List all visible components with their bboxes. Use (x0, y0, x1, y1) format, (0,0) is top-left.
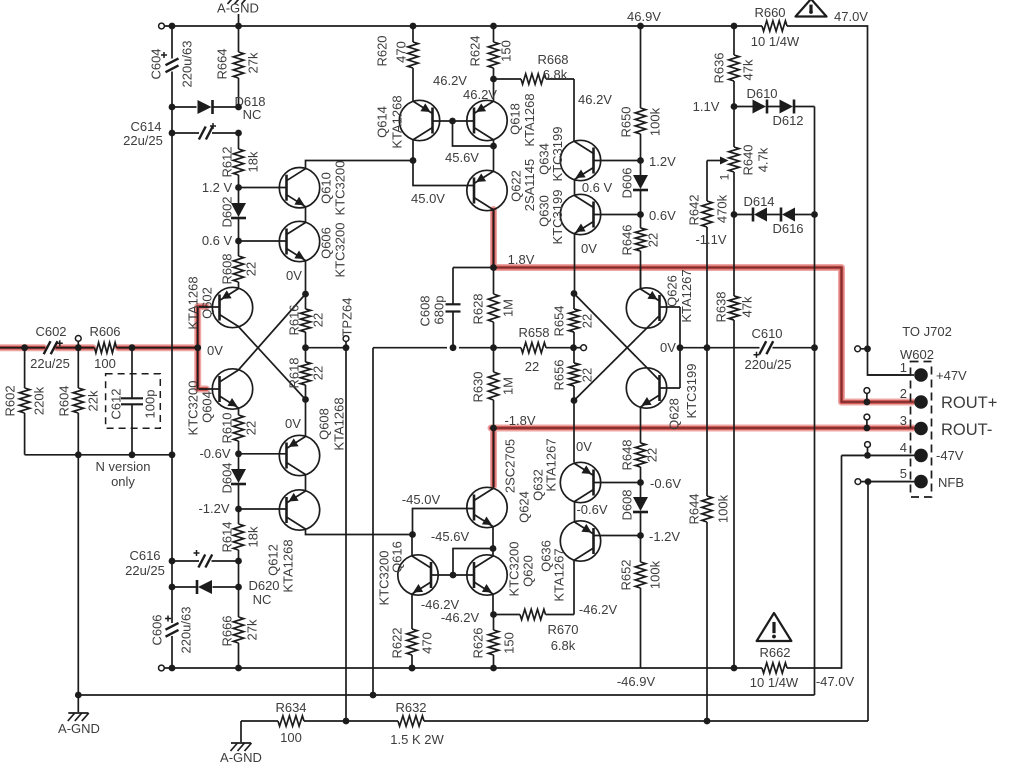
pot wiper R640 (707, 157, 729, 165)
junction C604-D618 (169, 104, 176, 111)
resistor R606 (95, 343, 117, 353)
svg-text:100k: 100k (648, 560, 663, 589)
svg-text:Q606: Q606 (319, 227, 334, 259)
wire mid horizontal net2 (459, 347, 521, 349)
junction R614-C616 (235, 558, 242, 565)
svg-text:D602: D602 (220, 196, 235, 227)
label R644 value (716, 494, 731, 523)
svg-text:46.9V: 46.9V (627, 9, 661, 24)
resistor R630 (488, 348, 498, 428)
svg-text:27k: 27k (246, 52, 261, 73)
svg-text:+47V: +47V (936, 368, 967, 383)
wire D610 row (734, 106, 815, 108)
junction R642 bottom (704, 344, 711, 351)
label 0.6 V left (202, 233, 233, 248)
wire D602 leads (238, 188, 240, 242)
svg-text:220u/25: 220u/25 (745, 357, 792, 372)
label 1.8V (508, 252, 535, 267)
svg-text:0.6 V: 0.6 V (582, 180, 613, 195)
wire bases to Q618 emitter node (453, 121, 494, 146)
label R662 value (750, 675, 799, 690)
svg-text:Q614: Q614 (375, 106, 390, 138)
svg-text:R656: R656 (552, 359, 567, 390)
wire input vertical (197, 307, 199, 389)
label Q618 KTA1268 (522, 93, 537, 146)
pin 2 W602 (914, 395, 928, 409)
svg-text:R664: R664 (215, 48, 230, 79)
wire NFB testpoint stub (861, 481, 868, 483)
svg-text:R622: R622 (390, 627, 405, 658)
svg-text:22: 22 (645, 448, 660, 462)
label pin 1 (900, 360, 907, 375)
svg-text:only: only (111, 474, 135, 489)
label ROUT- (941, 421, 992, 439)
svg-text:R616: R616 (287, 304, 302, 335)
wire C616 row (175, 560, 237, 562)
svg-text:KTA1267: KTA1267 (544, 438, 559, 491)
resistor R608 (233, 241, 243, 289)
label ROUT+ (941, 394, 997, 412)
junction C604-C614 (169, 130, 176, 137)
label R628 value (501, 299, 516, 317)
pin 1 W602 (914, 368, 928, 382)
node -0.6V left (235, 450, 242, 457)
wire Q610 base (239, 187, 288, 189)
svg-text:1M: 1M (501, 377, 516, 395)
label C614 (130, 119, 161, 134)
svg-text:R662: R662 (759, 645, 790, 660)
label R660 value (751, 34, 800, 49)
svg-text:100p: 100p (143, 390, 158, 419)
svg-text:R628: R628 (471, 293, 486, 324)
label R660 (754, 5, 785, 20)
node 1.2V right (637, 157, 644, 164)
node 1.8V red (490, 264, 497, 271)
svg-text:R626: R626 (471, 627, 486, 658)
label R648 (620, 439, 635, 470)
junction R654 top (571, 290, 578, 297)
label 46.2V b (463, 87, 497, 102)
svg-text:R606: R606 (89, 324, 120, 339)
svg-text:45.0V: 45.0V (411, 191, 445, 206)
svg-text:ROUT-: ROUT- (941, 421, 992, 439)
label R638 (714, 291, 729, 322)
warning triangle bottom (757, 613, 792, 641)
svg-text:D606: D606 (620, 167, 635, 198)
wire 0V line (680, 347, 815, 349)
diode D606 (633, 175, 648, 190)
resistor R614 (233, 509, 243, 561)
label N version only (111, 474, 135, 489)
label -1.2V right (649, 529, 680, 544)
capacitor C614 (199, 123, 216, 140)
svg-text:KTC3200: KTC3200 (333, 223, 348, 278)
svg-text:6.8k: 6.8k (551, 638, 576, 653)
junction bases bottom (450, 572, 457, 579)
junction x172 bottom (169, 665, 176, 672)
svg-text:100: 100 (280, 730, 302, 745)
wire D608 leads (640, 483, 642, 536)
svg-text:KTA1267: KTA1267 (679, 269, 694, 322)
label R640 value (756, 147, 771, 172)
label Q608 KTA1268 (332, 397, 347, 450)
wire A-GND top drop (238, 14, 240, 26)
svg-text:C608: C608 (418, 295, 433, 326)
svg-text:R640: R640 (741, 144, 756, 175)
label R652 value (648, 560, 663, 589)
diode D610 (753, 100, 768, 114)
svg-text:C606: C606 (150, 614, 165, 645)
wire red ROUT- trace (491, 428, 913, 486)
label R632 (395, 700, 426, 715)
svg-text:R636: R636 (712, 52, 727, 83)
label R646 value (646, 233, 661, 247)
resistor R616 (300, 309, 310, 332)
label R636 value (741, 59, 756, 80)
terminal R654-R656 testpoint (581, 345, 587, 351)
svg-text:R602: R602 (3, 385, 18, 416)
label Q620 (521, 555, 536, 587)
svg-text:0.6 V: 0.6 V (202, 233, 233, 248)
junction TPZ64 (343, 344, 350, 351)
wire Q606 base (239, 240, 287, 242)
junction R606 right (129, 344, 136, 351)
label Q614 (375, 106, 390, 138)
label Q604 (200, 391, 215, 423)
label Q628 (667, 398, 682, 430)
resistor R620 (408, 26, 418, 102)
resistor R604 (73, 348, 83, 455)
label R670 value (551, 638, 576, 653)
label R620 (375, 35, 390, 66)
label 47.0V (834, 9, 868, 24)
label R612 value (246, 151, 261, 172)
label -45.0V (402, 492, 441, 507)
junction rail x734 bottom (731, 665, 738, 672)
label C608 (418, 295, 433, 326)
junction R644 bottom (704, 718, 711, 725)
junction R656 bottom (571, 397, 578, 404)
wire Q626 collector diagonal (574, 317, 659, 401)
label -1.2V left (198, 501, 229, 516)
label R640 (741, 144, 756, 175)
label Q628 KTC3199 (684, 364, 699, 419)
label Q616 (390, 541, 405, 573)
svg-text:R654: R654 (552, 305, 567, 336)
svg-text:C612: C612 (109, 388, 124, 419)
svg-text:R652: R652 (619, 559, 634, 590)
wire Q604 base lead (199, 388, 220, 390)
label -47V (936, 448, 964, 463)
svg-text:R608: R608 (220, 253, 235, 284)
junction x172 D620 (169, 584, 176, 591)
resistor R658 (521, 343, 574, 353)
svg-text:46.2V: 46.2V (463, 87, 497, 102)
svg-text:220u/63: 220u/63 (179, 607, 194, 654)
svg-text:Q618: Q618 (508, 103, 523, 135)
wire R668 drop (573, 79, 575, 141)
label R628 (471, 293, 486, 324)
wire Q612 base (239, 508, 287, 510)
resistor R622 (407, 629, 417, 668)
label C602 (35, 324, 66, 339)
pin 3 W602 (914, 422, 928, 436)
wire D618 row (175, 106, 237, 108)
svg-text:R632: R632 (395, 700, 426, 715)
label N version (96, 459, 151, 474)
label -46.2V q636 (579, 602, 618, 617)
wire Q614-Q618 bases (433, 120, 475, 122)
wire Q624 collector down (492, 527, 494, 549)
node -1.8V red (490, 425, 497, 432)
svg-text:R646: R646 (620, 224, 635, 255)
svg-text:18k: 18k (246, 151, 261, 172)
label 0.6 V right (582, 180, 613, 195)
label Q602 (200, 287, 215, 319)
resistor R636 (729, 26, 739, 107)
svg-text:10 1/4W: 10 1/4W (751, 34, 800, 49)
node -1.2V left (235, 506, 242, 513)
svg-text:22k: 22k (86, 390, 101, 411)
svg-text:KTA1268: KTA1268 (390, 95, 405, 148)
transistor Q610 (279, 168, 319, 208)
wire Q604 collector diagonal (239, 294, 306, 370)
label R648 value (645, 448, 660, 462)
svg-text:1.2V: 1.2V (649, 154, 676, 169)
wire A-GND mid drop (240, 721, 242, 742)
svg-text:4.7k: 4.7k (756, 147, 771, 172)
svg-text:R658: R658 (518, 325, 549, 340)
label R642 value (715, 194, 730, 223)
svg-text:0V: 0V (581, 241, 597, 256)
svg-text:R650: R650 (619, 106, 634, 137)
svg-text:220u/63: 220u/63 (180, 41, 195, 88)
svg-text:22u/25: 22u/25 (123, 133, 163, 148)
svg-text:Q620: Q620 (521, 555, 536, 587)
transistor Q626 (626, 288, 666, 328)
diode D620 (197, 580, 212, 594)
wire Q606 emitter (305, 261, 307, 310)
resistor R650 (635, 26, 645, 161)
junction x172 C616 (169, 558, 176, 565)
capacitor C608 (446, 304, 461, 311)
junction Q624-Q620 node (490, 545, 497, 552)
svg-text:Q602: Q602 (200, 287, 215, 319)
label C604 value (180, 41, 195, 88)
svg-text:-45.6V: -45.6V (431, 529, 470, 544)
junction bases 0V (677, 344, 684, 351)
label R634 value (280, 730, 302, 745)
label -46.2V q616 (421, 597, 460, 612)
label Q618 (508, 103, 523, 135)
junction x238 bottom (235, 665, 242, 672)
label R654 (552, 305, 567, 336)
svg-text:22: 22 (580, 314, 595, 328)
svg-text:Q604: Q604 (200, 391, 215, 423)
label R636 (712, 52, 727, 83)
svg-text:-46.9V: -46.9V (617, 674, 656, 689)
label R618 value (311, 366, 326, 380)
label R626 value (502, 632, 517, 654)
wire Q634-Q630 link (574, 180, 576, 195)
pin 5 W602 (914, 475, 928, 489)
label 45.0V (411, 191, 445, 206)
svg-text:ROUT+: ROUT+ (941, 394, 997, 412)
svg-text:KTC3199: KTC3199 (684, 364, 699, 419)
svg-text:46.2V: 46.2V (433, 73, 467, 88)
junction rail x238 (235, 23, 242, 30)
label R614 value (246, 526, 261, 547)
junction x172 y454 (169, 451, 176, 458)
svg-text:3: 3 (900, 413, 907, 428)
label R634 (275, 700, 306, 715)
label Q630 (537, 195, 552, 227)
wire tp stub (574, 347, 581, 349)
svg-text:0V: 0V (285, 416, 301, 431)
svg-text:5: 5 (900, 466, 907, 481)
label R640 wiper 1 (718, 173, 732, 180)
svg-text:1M: 1M (501, 299, 516, 317)
resistor R652 (635, 536, 645, 669)
label -47.0V (816, 674, 855, 689)
junction C608 bottom (450, 344, 457, 351)
label R624 value (499, 40, 514, 62)
svg-text:22: 22 (311, 313, 326, 327)
label R646 (620, 224, 635, 255)
label 46.2V c (578, 92, 612, 107)
label D620 NC (253, 592, 272, 607)
svg-text:-1.2V: -1.2V (649, 529, 680, 544)
svg-text:R648: R648 (620, 439, 635, 470)
label Q626 (665, 275, 680, 307)
junction R626 bottom (490, 665, 497, 672)
label C608 value (432, 296, 447, 325)
wire Q636 base (594, 535, 639, 537)
label R664 value (246, 52, 261, 73)
junction Q612-Q616 node (409, 531, 416, 538)
svg-text:D616: D616 (772, 221, 803, 236)
svg-text:220k: 220k (32, 386, 47, 415)
resistor R662 (762, 663, 787, 673)
label Q620 KTC3200 (507, 542, 522, 597)
wire Q614 collector down (412, 140, 414, 161)
wire input bottom (25, 454, 172, 456)
label D618 NC (243, 107, 262, 122)
transistor Q602 (212, 287, 252, 327)
junction D620 right (235, 584, 242, 591)
label R630 (471, 371, 486, 402)
svg-text:-0.6V: -0.6V (650, 476, 681, 491)
svg-text:22: 22 (525, 359, 539, 374)
junction R622 bottom (409, 665, 416, 672)
wire Q632-Q636 link (574, 502, 576, 522)
terminal +47V testpoint (855, 346, 861, 352)
wire C612 leads (131, 348, 133, 455)
svg-text:470k: 470k (715, 194, 730, 223)
transistor Q624 (467, 487, 507, 527)
label R602 value (32, 386, 47, 415)
label R668 (537, 52, 568, 67)
label 1.2V right (649, 154, 676, 169)
svg-text:100k: 100k (648, 107, 663, 136)
wire Q632 base (594, 482, 639, 484)
junction +47V testpoint (864, 345, 871, 352)
label R604 value (86, 390, 101, 411)
transistor Q608 (279, 435, 319, 475)
label R606 (89, 324, 120, 339)
wire pin4 lead (842, 454, 915, 456)
svg-text:KTC3200: KTC3200 (507, 542, 522, 597)
label R606 value (94, 356, 116, 371)
label R616 (287, 304, 302, 335)
svg-text:A-GND: A-GND (220, 750, 262, 765)
label D610 (746, 86, 777, 101)
svg-text:C610: C610 (751, 326, 782, 341)
capacitor C616 (194, 550, 213, 568)
svg-text:47.0V: 47.0V (834, 9, 868, 24)
label C606 value (179, 607, 194, 654)
wire C608 bottom lead (452, 312, 454, 348)
wire R656 to Q632 (573, 401, 575, 463)
transistor Q618 (467, 100, 507, 140)
transistor Q628 (626, 368, 666, 408)
svg-text:NC: NC (253, 592, 272, 607)
junction y454 x78 (75, 451, 82, 458)
svg-text:R620: R620 (375, 35, 390, 66)
resistor R638 (729, 215, 739, 669)
label C614 value (123, 133, 163, 148)
label D608 (620, 489, 635, 520)
terminal top rail (159, 23, 165, 29)
label D602 (220, 196, 235, 227)
svg-text:22: 22 (646, 233, 661, 247)
wire C608 top (453, 268, 494, 305)
svg-text:6.8k: 6.8k (543, 67, 568, 82)
svg-text:1.5 K 2W: 1.5 K 2W (390, 732, 444, 747)
svg-text:Q612: Q612 (266, 544, 281, 576)
resistor R644 (702, 348, 712, 721)
svg-text:R642: R642 (687, 194, 702, 225)
label R664 (215, 48, 230, 79)
svg-text:D620: D620 (248, 578, 279, 593)
label R610 (220, 412, 235, 443)
diode D612 (780, 100, 795, 114)
label Q606 (319, 227, 334, 259)
label Q614 KTA1268 (390, 95, 405, 148)
svg-text:R666: R666 (220, 615, 235, 646)
svg-text:Q608: Q608 (317, 408, 332, 440)
terminal ROUT- testpoint (864, 414, 870, 420)
label R632 value (390, 732, 444, 747)
svg-text:22: 22 (244, 421, 259, 435)
junction -47V tp (864, 452, 871, 459)
wire A-GND rail (78, 694, 814, 696)
junction C614 right (235, 130, 242, 137)
wire -46.9V rail (164, 455, 911, 668)
box N-version dashed (106, 374, 161, 429)
svg-text:KTA1268: KTA1268 (281, 539, 296, 592)
svg-text:100: 100 (94, 356, 116, 371)
label R652 (619, 559, 634, 590)
svg-text:R634: R634 (275, 700, 306, 715)
resistor R628 (488, 268, 498, 348)
svg-text:A-GND: A-GND (58, 721, 100, 736)
wire Q616 collector up (411, 535, 413, 557)
transistor Q630 (560, 194, 600, 234)
svg-text:R610: R610 (220, 412, 235, 443)
svg-text:A-GND: A-GND (217, 1, 259, 16)
svg-text:-47V: -47V (936, 448, 964, 463)
